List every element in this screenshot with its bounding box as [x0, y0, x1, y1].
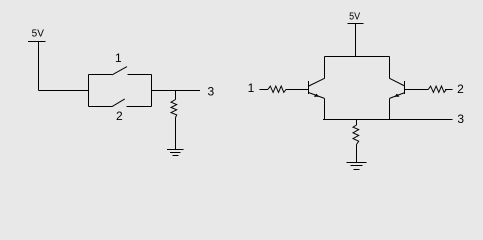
- svg-text:3: 3: [457, 112, 464, 126]
- svg-text:5V: 5V: [32, 29, 45, 40]
- svg-text:1: 1: [115, 51, 122, 65]
- svg-text:5V: 5V: [349, 12, 360, 23]
- svg-text:1: 1: [248, 81, 255, 95]
- svg-text:2: 2: [116, 109, 123, 123]
- svg-text:2: 2: [457, 82, 464, 96]
- svg-text:3: 3: [207, 85, 214, 99]
